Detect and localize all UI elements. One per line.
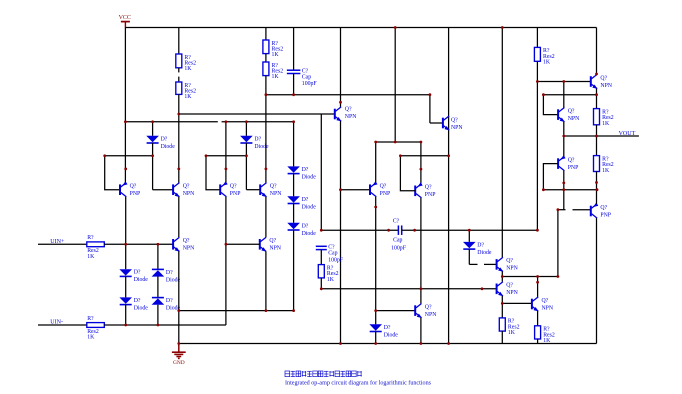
wire cell2 base loop	[206, 156, 220, 190]
svg-text:Diode: Diode	[477, 250, 492, 256]
diode D7 (clamp left lower)	[119, 297, 148, 311]
svg-text:Q?: Q?	[568, 108, 575, 114]
svg-text:PNP: PNP	[425, 192, 436, 198]
wire R10 to node	[596, 172, 598, 190]
svg-text:100pF: 100pF	[302, 81, 318, 87]
transistor Q5 NPN	[335, 107, 357, 122]
svg-text:Q?: Q?	[425, 304, 432, 310]
svg-text:Q?: Q?	[600, 205, 607, 211]
diode D6 (clamp left upper)	[119, 269, 148, 283]
wire R8 down to corner	[320, 278, 322, 289]
wire UIN- to Q3 emitter branch	[104, 324, 226, 326]
wire mid bus left of C2	[321, 229, 398, 231]
wire Q7 emitter node bus	[543, 94, 596, 96]
transistor Q15 PNP	[558, 155, 578, 171]
svg-text:R?: R?	[87, 235, 94, 241]
resistor R9 Res2 1K	[594, 109, 614, 127]
wire Q16 emitter down to bottom rail	[596, 218, 598, 343]
wire Q16 base bus seg1	[558, 209, 566, 211]
wire to Q6 base	[430, 122, 443, 124]
svg-text:PNP: PNP	[568, 165, 579, 171]
wire rail to C1	[293, 28, 295, 71]
resistor R11 Res2 1K	[499, 318, 519, 336]
wire D3 to D4	[293, 174, 295, 197]
wire D8 to D9	[157, 277, 159, 298]
svg-text:1K: 1K	[602, 121, 610, 127]
wire Q13 emitter to Q14 collector	[501, 272, 503, 282]
resistor R8 Res2 1K	[318, 265, 338, 283]
wire to Q4 base bar	[246, 189, 260, 191]
capacitor C1 Cap 100pF	[287, 69, 318, 88]
wire rail to R1	[178, 28, 180, 55]
wire rail down to Q13 collector	[501, 28, 503, 258]
wire Q4 emitter to Q9 collector	[265, 197, 267, 237]
wire B to D1	[152, 122, 154, 136]
wire Q5 emitter long drop	[340, 121, 342, 343]
wire mirror bus to Q18 collector	[537, 277, 539, 297]
svg-text:Diode: Diode	[254, 144, 269, 150]
transistor Q1 PNP	[120, 181, 140, 197]
wire Q11 emitter down to Q17 collector	[420, 198, 422, 304]
wire D10 to ground rail	[375, 331, 377, 343]
svg-text:1K: 1K	[272, 52, 280, 58]
wire Q17 emitter to ground rail	[420, 318, 422, 344]
svg-text:NPN: NPN	[600, 83, 612, 89]
wire top VCC rail	[125, 27, 596, 29]
svg-text:Q?: Q?	[506, 283, 513, 289]
wire Q2 emitter to Q8 collector	[178, 197, 180, 237]
wire VCC drop to Q1 PNP collector	[124, 28, 126, 183]
wire cell2 cross link	[206, 155, 246, 157]
wire Q15 collector down to Q16 base bus	[563, 171, 565, 210]
svg-text:NPN: NPN	[506, 290, 518, 296]
wire Q11 base loop	[400, 156, 415, 191]
svg-text:PNP: PNP	[130, 191, 141, 197]
wire lower mid bus to Q14 base	[321, 288, 496, 290]
svg-text:1K: 1K	[184, 94, 192, 100]
transistor Q4 NPN	[260, 183, 282, 198]
wire Q11 loop to rail column	[400, 155, 448, 157]
svg-text:D?: D?	[166, 270, 173, 276]
svg-text:Cap: Cap	[393, 238, 402, 244]
svg-text:Diode: Diode	[302, 174, 317, 180]
svg-text:Q?: Q?	[183, 238, 190, 244]
wire long vertical rail column	[448, 28, 450, 344]
wire Q8 emitter to ground rail	[178, 251, 180, 343]
wire Q10 emitter node to Q17 base	[376, 310, 416, 312]
svg-text:Q?: Q?	[183, 184, 190, 190]
wire D9 to UIN- wire	[157, 305, 159, 325]
wire Q10 emitter down to D10	[375, 197, 377, 324]
svg-text:Q?: Q?	[269, 238, 276, 244]
transistor Q7 NPN	[591, 74, 613, 89]
wire B to D2	[245, 122, 247, 136]
wire mirror bus	[502, 276, 558, 278]
wire Q15 base loop	[543, 164, 558, 190]
svg-text:1K: 1K	[543, 60, 551, 66]
wire D6 to D7	[125, 276, 127, 297]
svg-text:Cap: Cap	[302, 75, 311, 81]
svg-text:Diode: Diode	[384, 332, 399, 338]
transistor Q14 NPN	[497, 282, 519, 297]
svg-text:Q?: Q?	[568, 157, 575, 163]
transistor Q11 PNP	[415, 182, 435, 198]
diode D8 (clamp right upper)	[152, 269, 181, 283]
wire C1 to node	[293, 74, 295, 95]
transistor Q12 NPN	[558, 108, 580, 123]
svg-text:VCC: VCC	[119, 15, 131, 21]
diode D5	[287, 223, 316, 237]
svg-text:NPN: NPN	[183, 191, 195, 197]
svg-text:Cap: Cap	[328, 251, 337, 257]
wire D2 to Q4 base	[245, 143, 247, 190]
wire bottom rail	[179, 343, 597, 345]
capacitor C3 Cap 100pF	[316, 245, 344, 264]
svg-text:Integrated op-amp circuit diag: Integrated op-amp circuit diagram for lo…	[285, 380, 432, 387]
transistor Q6 NPN	[443, 116, 464, 131]
wire Q7 base bus	[537, 81, 590, 83]
diode D9 (clamp right lower)	[152, 298, 181, 312]
capacitor C2 Cap 100pF	[391, 218, 407, 251]
svg-text:D?: D?	[302, 197, 309, 203]
wire B segment 2	[222, 121, 294, 123]
wire mid bus right of C2	[402, 229, 538, 231]
wire D5 down to lower bus	[293, 230, 295, 311]
svg-text:Q?: Q?	[345, 107, 352, 113]
svg-text:Diode: Diode	[302, 231, 317, 237]
wire A node down to mid bus	[320, 114, 322, 230]
svg-text:Diode: Diode	[134, 305, 149, 311]
wire chain1 down to Q2 NPN collector	[178, 94, 180, 182]
wire R9 to VOUT node to R10	[596, 125, 598, 156]
svg-text:Diode: Diode	[134, 277, 149, 283]
transistor Q3 PNP	[220, 181, 240, 197]
svg-text:R?: R?	[87, 316, 94, 322]
transistor Q9 NPN	[260, 237, 282, 252]
svg-text:1K: 1K	[602, 168, 610, 174]
diode D4	[287, 196, 316, 210]
svg-text:1K: 1K	[508, 330, 516, 336]
diode D10	[369, 324, 398, 338]
wire Q12 collector to Q7 base bus	[563, 82, 565, 108]
wire node to Q16 collector	[596, 190, 598, 204]
wire A chain1 node to Q5 base	[179, 113, 335, 115]
wire Q14 emitter node to Q18 base	[502, 302, 532, 304]
svg-text:Q?: Q?	[230, 184, 237, 190]
svg-text:D?: D?	[161, 136, 168, 142]
svg-text:100pF: 100pF	[328, 257, 344, 263]
wire break to R2	[178, 77, 180, 82]
svg-text:D?: D?	[254, 136, 261, 142]
svg-text:D?: D?	[384, 325, 391, 331]
wire D11 down	[468, 249, 470, 264]
svg-text:NPN: NPN	[568, 116, 580, 122]
svg-text:Q?: Q?	[270, 184, 277, 190]
transistor Q2 NPN	[173, 183, 195, 198]
diode D3	[287, 166, 316, 180]
wire Q7 emitter to R9	[596, 89, 598, 109]
diode D11	[463, 242, 492, 256]
wire UIN+ to Q8 base	[104, 243, 173, 245]
wire UIN- input	[38, 324, 87, 326]
wire Q15 base bus	[543, 189, 597, 191]
wire link to Q11 collector	[420, 142, 422, 184]
svg-text:100pF: 100pF	[391, 246, 407, 252]
wire Q12 base loop	[543, 95, 558, 115]
svg-text:Q?: Q?	[451, 118, 458, 124]
wire R11 to bottom rail	[501, 331, 503, 343]
wire D1 to Q2 base	[152, 143, 154, 190]
title Chinese text	[285, 371, 362, 377]
svg-text:NPN: NPN	[270, 191, 282, 197]
wire rail to Q5 collector	[340, 28, 342, 107]
svg-text:NPN: NPN	[183, 246, 195, 252]
wire to Q2 base bar	[153, 189, 174, 191]
transistor Q17 NPN	[415, 304, 437, 319]
wire R12 to bottom rail	[537, 339, 539, 344]
transistor Q16 PNP	[591, 203, 611, 219]
transistor Q13 NPN	[497, 257, 519, 272]
resistor R7 Res2 1K (UIN-)	[87, 316, 105, 341]
svg-text:Q?: Q?	[380, 184, 387, 190]
wire lower bus left	[179, 310, 294, 312]
svg-text:C?: C?	[393, 218, 400, 224]
wire UIN+ to D8	[157, 244, 159, 269]
resistor R4 Res2 1K (chain2 lower)	[263, 62, 283, 80]
wire Q12 emitter through VOUT to Q15 emitter	[563, 122, 565, 157]
transistor Q8 NPN	[173, 237, 195, 252]
svg-text:Q?: Q?	[506, 258, 513, 264]
wire Q14 emitter to R11	[501, 296, 503, 318]
wire C3 to R8	[320, 250, 322, 265]
svg-text:D?: D?	[477, 242, 484, 248]
wire PNP pair collector link	[376, 141, 421, 143]
wire D11 to Q13 base seg2	[484, 263, 497, 265]
wire R3 to R4	[265, 54, 267, 62]
svg-text:D?: D?	[302, 223, 309, 229]
wire Q1 emitter down to clamp	[125, 197, 127, 269]
wire Q18 emitter to R12	[537, 311, 539, 326]
diode D1	[146, 136, 175, 150]
svg-text:D?: D?	[134, 270, 141, 276]
wire link to Q10 collector	[375, 142, 377, 183]
svg-text:Q?: Q?	[600, 75, 607, 81]
resistor R3 Res2 1K (chain2 upper)	[263, 40, 283, 58]
wire Q5 emitter node to Q10 base	[341, 189, 371, 191]
ground GND symbol	[172, 344, 186, 366]
svg-text:D?: D?	[166, 298, 173, 304]
wire node chain2/C1 bottom bus	[266, 94, 430, 96]
wire D11 to Q13 base seg1	[469, 263, 477, 265]
transistor Q18 NPN	[532, 297, 554, 312]
wire rail to R5	[536, 28, 538, 48]
svg-text:D?: D?	[302, 167, 309, 173]
wire D7 to UIN- wire	[125, 305, 127, 326]
svg-text:Q?: Q?	[130, 184, 137, 190]
resistor R1 Res2 1K (chain1 upper)	[176, 54, 196, 72]
wire rail corner to Q7 collector	[596, 28, 598, 75]
resistor R12 Res2 1K	[535, 326, 555, 344]
wire chain2 down to Q4 NPN collector	[265, 76, 267, 183]
wire B end down to diode column	[293, 122, 295, 167]
wire Q16 base node down	[557, 210, 559, 277]
wire cell1 cross link	[105, 155, 153, 157]
diode D2	[240, 136, 269, 150]
wire R1 to break	[178, 68, 180, 73]
svg-text:NPN: NPN	[345, 114, 357, 120]
wire mid bus to D11	[468, 230, 470, 242]
svg-text:NPN: NPN	[542, 305, 554, 311]
wire cell1 base loop	[105, 156, 120, 190]
transistor Q10 PNP	[370, 181, 390, 197]
svg-text:PNP: PNP	[380, 191, 391, 197]
wire B segment 1	[125, 121, 217, 123]
svg-text:Q?: Q?	[542, 298, 549, 304]
svg-text:PNP: PNP	[230, 191, 241, 197]
svg-text:1K: 1K	[272, 74, 280, 80]
wire D4 to D5	[293, 203, 295, 222]
svg-text:Diode: Diode	[302, 204, 317, 210]
resistor R10 Res2 1K	[594, 156, 614, 174]
resistor R5 Res2 1K	[534, 47, 554, 65]
svg-text:NPN: NPN	[451, 125, 463, 131]
svg-text:NPN: NPN	[506, 266, 518, 272]
wire Q3 emitter node to Q9 base	[226, 243, 260, 245]
wire corner down to Q6 base	[429, 95, 431, 123]
svg-text:D?: D?	[134, 298, 141, 304]
svg-text:NPN: NPN	[269, 246, 281, 252]
power VCC symbol	[119, 15, 131, 28]
svg-text:1K: 1K	[327, 277, 335, 283]
resistor R2 Res2 1K (chain1 lower)	[176, 82, 196, 100]
wire B to Q3 collector	[225, 122, 227, 183]
svg-text:1K: 1K	[184, 66, 192, 72]
wire rail to PNP pair feed	[394, 28, 396, 143]
svg-text:1K: 1K	[87, 254, 95, 260]
wire Q16 base bus seg2	[573, 209, 591, 211]
svg-text:Q?: Q?	[425, 185, 432, 191]
resistor R6 Res2 1K (UIN+)	[87, 235, 105, 260]
wire UIN+ input	[38, 243, 87, 245]
svg-text:Diode: Diode	[161, 144, 176, 150]
svg-text:GND: GND	[173, 360, 185, 366]
wire Q9 emitter to lower bus	[265, 251, 267, 310]
wire Q3 emitter down to UIN- node	[225, 197, 227, 325]
wire VOUT output	[564, 135, 639, 137]
wire R5 down to mid bus end	[536, 61, 538, 230]
wire rail to R3	[265, 28, 267, 41]
svg-text:PNP: PNP	[600, 212, 611, 218]
svg-text:1K: 1K	[87, 335, 95, 341]
svg-text:NPN: NPN	[425, 312, 437, 318]
